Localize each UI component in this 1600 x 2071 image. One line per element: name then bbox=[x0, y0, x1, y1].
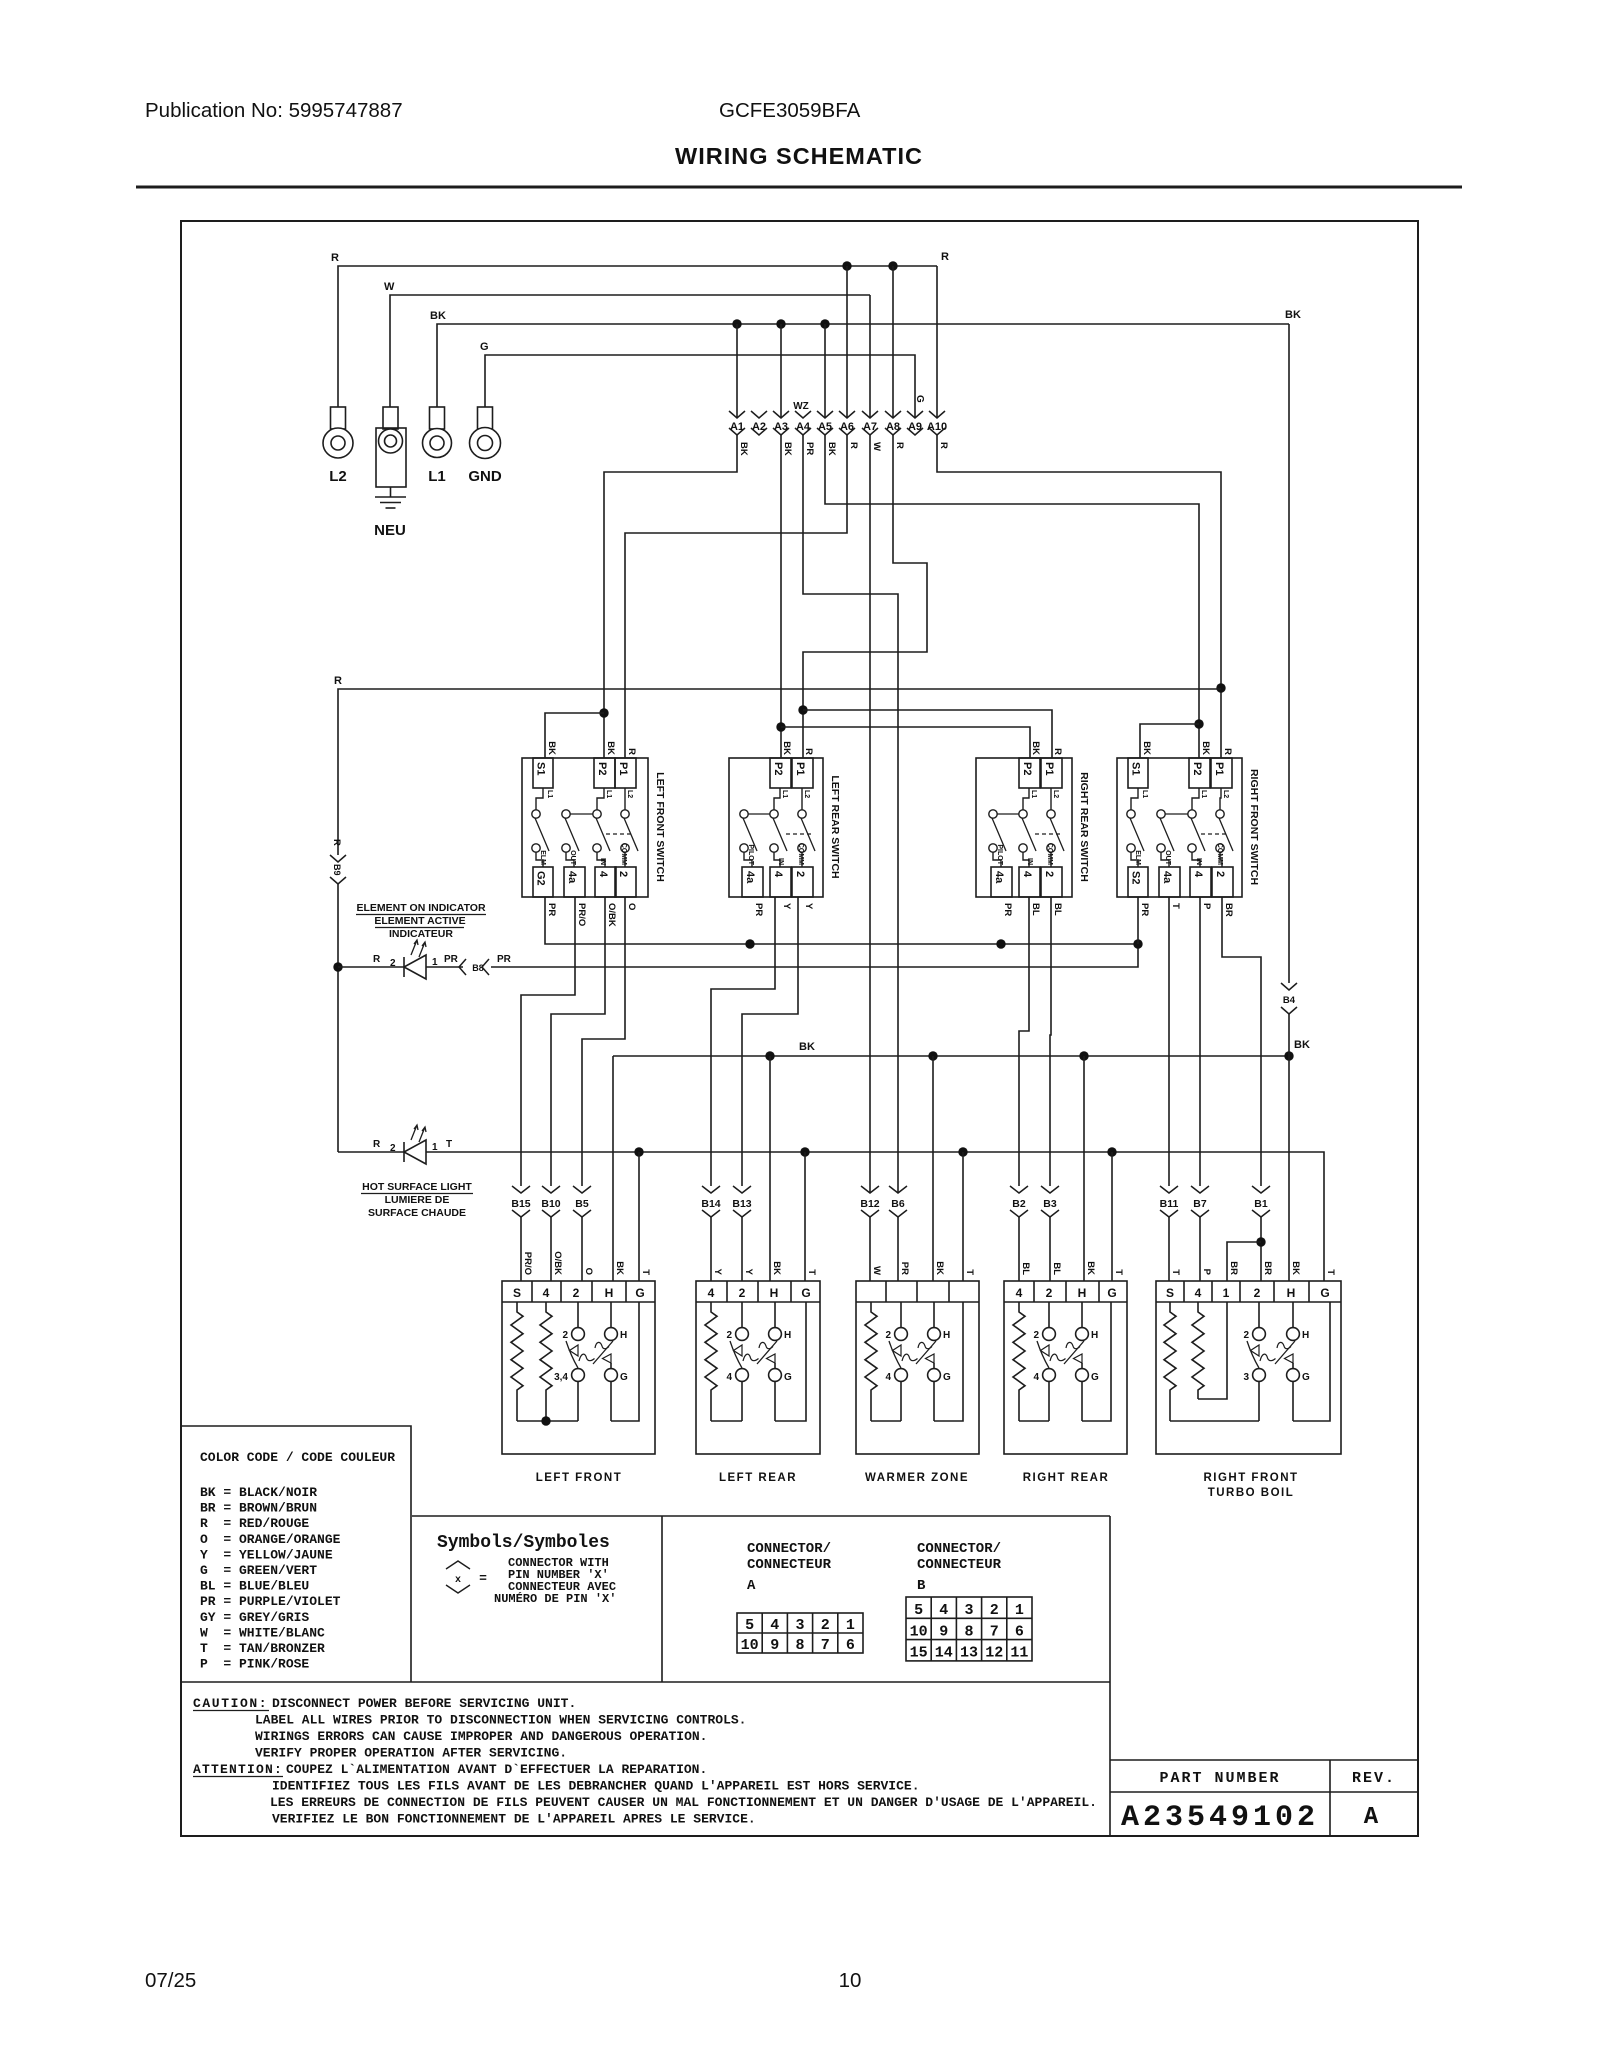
inline connector B7 bbox=[1191, 1186, 1209, 1193]
connector pin A1 bbox=[729, 411, 745, 418]
svg-text:4: 4 bbox=[1033, 1372, 1039, 1383]
wire left front G feed T bbox=[638, 1152, 640, 1281]
svg-text:BL = BLUE/BLEU: BL = BLUE/BLEU bbox=[200, 1579, 309, 1594]
switch LEFT FRONT SWITCH S1 bbox=[522, 758, 648, 897]
limiter switch warmer zone H-G bbox=[933, 1302, 935, 1328]
svg-text:LEFT REAR: LEFT REAR bbox=[719, 1472, 797, 1484]
svg-text:R: R bbox=[941, 251, 949, 263]
svg-text:H: H bbox=[1078, 1286, 1087, 1300]
junction BK bus left rear bbox=[765, 1051, 774, 1060]
terminal NEU with neutral block and ground bbox=[383, 407, 398, 429]
svg-text:P: P bbox=[1201, 1269, 1212, 1276]
svg-text:G: G bbox=[1302, 1372, 1310, 1383]
svg-text:BR: BR bbox=[1223, 903, 1234, 917]
svg-text:T: T bbox=[1170, 903, 1181, 909]
terminal GND bbox=[478, 407, 493, 429]
junction left front element bus bbox=[541, 1416, 550, 1425]
svg-text:13: 13 bbox=[960, 1645, 978, 1662]
svg-text:3: 3 bbox=[964, 1602, 973, 1619]
svg-text:10: 10 bbox=[741, 1637, 759, 1654]
wire A3 BK to left rear switch P2 bbox=[780, 435, 782, 758]
svg-text:RIGHT REAR: RIGHT REAR bbox=[1023, 1472, 1110, 1484]
svg-text:B5: B5 bbox=[575, 1198, 589, 1210]
svg-text:ELEMENT ACTIVE: ELEMENT ACTIVE bbox=[374, 915, 465, 927]
svg-text:BK: BK bbox=[1285, 309, 1301, 321]
wire right front S1 feed bbox=[1140, 724, 1199, 758]
junction element-on indicator bbox=[333, 962, 342, 971]
element LEFT REAR bbox=[696, 1281, 820, 1454]
inline connector B1 bbox=[1252, 1186, 1270, 1193]
svg-text:R: R bbox=[1222, 748, 1233, 755]
svg-text:LEFT FRONT SWITCH: LEFT FRONT SWITCH bbox=[654, 772, 666, 882]
wire warmer zone BK feed bbox=[932, 1056, 934, 1281]
svg-text:WIRING SCHEMATIC: WIRING SCHEMATIC bbox=[675, 143, 923, 169]
svg-text:Y: Y bbox=[781, 903, 792, 910]
svg-text:BK: BK bbox=[1294, 1039, 1310, 1051]
svg-text:07/25: 07/25 bbox=[145, 1969, 196, 1992]
svg-text:R: R bbox=[803, 748, 814, 755]
svg-text:2: 2 bbox=[885, 1330, 891, 1341]
resistor warmer zone bbox=[865, 1302, 877, 1421]
svg-text:4: 4 bbox=[772, 871, 784, 878]
color code box bbox=[181, 1426, 411, 1682]
resistor right front inner bbox=[1192, 1302, 1204, 1399]
wire R supply bus bbox=[338, 266, 937, 407]
svg-text:LEFT FRONT: LEFT FRONT bbox=[536, 1472, 623, 1484]
inline connector B11 bbox=[1160, 1186, 1178, 1193]
limiter switch left front 2-3,4 bbox=[577, 1302, 579, 1328]
svg-text:T: T bbox=[1113, 1269, 1124, 1275]
svg-text:1: 1 bbox=[846, 1617, 855, 1634]
svg-text:B2: B2 bbox=[1012, 1198, 1026, 1210]
svg-text:ATTENTION:: ATTENTION: bbox=[193, 1762, 283, 1777]
wire left rear P1 to right rear P1 bbox=[803, 710, 1052, 758]
svg-text:BK: BK bbox=[781, 741, 792, 755]
junction right front P2/S1 bbox=[1194, 719, 1203, 728]
svg-text:7: 7 bbox=[990, 1623, 999, 1640]
svg-text:H: H bbox=[620, 1330, 627, 1341]
resistor right rear surface bbox=[1013, 1302, 1025, 1421]
svg-text:BK: BK bbox=[1141, 741, 1152, 755]
wire right front 4a element feed bbox=[1168, 897, 1170, 1186]
svg-text:BK = BLACK/NOIR: BK = BLACK/NOIR bbox=[200, 1485, 317, 1500]
svg-text:BK: BK bbox=[605, 741, 616, 755]
wire right front 4 element feed bbox=[1199, 897, 1201, 1186]
svg-text:SURFACE CHAUDE: SURFACE CHAUDE bbox=[368, 1207, 466, 1219]
svg-text:9: 9 bbox=[770, 1637, 779, 1654]
connector pin A2 bbox=[751, 411, 767, 418]
svg-text:12: 12 bbox=[985, 1645, 1003, 1662]
svg-text:P2: P2 bbox=[1191, 762, 1203, 775]
element WARMER ZONE bbox=[856, 1281, 979, 1454]
limiter switch right front H-G bbox=[1292, 1302, 1294, 1328]
svg-text:PR/O: PR/O bbox=[522, 1252, 533, 1275]
svg-text:O/BK: O/BK bbox=[606, 903, 617, 927]
svg-text:RIGHT FRONT SWITCH: RIGHT FRONT SWITCH bbox=[1248, 769, 1260, 885]
wire R distribution bus bbox=[338, 689, 1221, 855]
svg-text:PR: PR bbox=[444, 954, 459, 965]
svg-text:H: H bbox=[605, 1286, 614, 1300]
svg-text:CONNECTOR/: CONNECTOR/ bbox=[747, 1541, 831, 1557]
svg-text:Symbols/Symboles: Symbols/Symboles bbox=[437, 1533, 610, 1553]
inline connector B12 on W feed bbox=[861, 1186, 879, 1193]
svg-text:PR = PURPLE/VIOLET: PR = PURPLE/VIOLET bbox=[200, 1594, 341, 1609]
wire left front S element feed bbox=[521, 897, 575, 1186]
svg-text:BK: BK bbox=[546, 741, 557, 755]
inline connector B5 bbox=[573, 1186, 591, 1193]
junction PR bus right rear bbox=[996, 939, 1005, 948]
svg-text:G: G bbox=[784, 1372, 792, 1383]
junction T bus left front bbox=[634, 1147, 643, 1156]
svg-text:8: 8 bbox=[964, 1623, 973, 1640]
svg-text:PILOT: PILOT bbox=[996, 844, 1003, 865]
junction B1 branch bbox=[1256, 1237, 1265, 1246]
svg-text:COMM: COMM bbox=[1046, 843, 1053, 865]
svg-text:4: 4 bbox=[1021, 871, 1033, 878]
wire warmer zone lamp return bbox=[934, 1302, 963, 1421]
svg-text:LES ERREURS DE CONNECTION DE F: LES ERREURS DE CONNECTION DE FILS PEUVEN… bbox=[270, 1795, 1097, 1810]
svg-text:R = RED/ROUGE: R = RED/ROUGE bbox=[200, 1516, 309, 1531]
svg-text:Publication No: 5995747887: Publication No: 5995747887 bbox=[145, 99, 403, 122]
svg-text:R: R bbox=[1052, 748, 1063, 755]
svg-text:T: T bbox=[1325, 1269, 1336, 1275]
svg-text:A10: A10 bbox=[927, 421, 947, 433]
svg-text:2: 2 bbox=[573, 1286, 580, 1300]
svg-text:10: 10 bbox=[839, 1969, 862, 1992]
wire left rear 2 element feed bbox=[742, 897, 798, 1186]
junction T bus warmer zone bbox=[958, 1147, 967, 1156]
svg-text:LUMIERE DE: LUMIERE DE bbox=[385, 1194, 450, 1206]
svg-text:L1: L1 bbox=[781, 790, 788, 798]
svg-text:R: R bbox=[334, 675, 342, 687]
svg-text:L1: L1 bbox=[605, 790, 612, 798]
svg-text:IN: IN bbox=[777, 858, 784, 865]
svg-text:NEU: NEU bbox=[374, 522, 406, 539]
svg-text:4a: 4a bbox=[993, 871, 1005, 884]
switch LEFT REAR SWITCH S2 bbox=[729, 758, 823, 897]
wire left front 2 element feed bbox=[582, 897, 625, 1186]
svg-text:R: R bbox=[373, 954, 381, 965]
wire branch to element pin 1 bbox=[1227, 1242, 1261, 1281]
connector pin A6 bbox=[839, 411, 855, 418]
resistor right front outer bbox=[1164, 1302, 1176, 1421]
svg-text:G: G bbox=[480, 341, 489, 353]
svg-text:Y: Y bbox=[803, 903, 814, 910]
LED hot surface light bbox=[338, 1151, 404, 1153]
svg-text:3,4: 3,4 bbox=[554, 1372, 568, 1383]
svg-text:L2: L2 bbox=[626, 790, 633, 798]
svg-text:P: P bbox=[1201, 903, 1212, 910]
svg-text:4: 4 bbox=[1195, 1286, 1202, 1300]
wire A6 R to left front switch P1 bbox=[625, 435, 847, 758]
svg-text:BR = BROWN/BRUN: BR = BROWN/BRUN bbox=[200, 1501, 317, 1516]
svg-text:R: R bbox=[894, 442, 905, 449]
ground symbol bbox=[390, 487, 392, 497]
svg-text:PR: PR bbox=[1002, 903, 1013, 916]
svg-text:B10: B10 bbox=[541, 1198, 560, 1210]
connector pin A5 bbox=[817, 411, 833, 418]
svg-text:W: W bbox=[871, 1266, 882, 1275]
svg-text:G = GREEN/VERT: G = GREEN/VERT bbox=[200, 1563, 317, 1578]
svg-text:WARMER ZONE: WARMER ZONE bbox=[865, 1472, 969, 1484]
junction T bus left rear bbox=[800, 1147, 809, 1156]
connector pin A8 bbox=[885, 411, 901, 418]
svg-text:CAUTION:: CAUTION: bbox=[193, 1696, 268, 1711]
svg-text:11: 11 bbox=[1010, 1645, 1028, 1662]
svg-text:PR: PR bbox=[804, 442, 815, 455]
svg-text:4: 4 bbox=[770, 1617, 779, 1634]
svg-text:L1: L1 bbox=[428, 468, 446, 485]
switch RIGHT REAR SWITCH S3 bbox=[976, 758, 1072, 897]
svg-text:3: 3 bbox=[1243, 1372, 1249, 1383]
limiter switch left rear H-G bbox=[774, 1302, 776, 1328]
svg-text:BK: BK bbox=[1290, 1261, 1301, 1275]
svg-text:4: 4 bbox=[597, 871, 609, 878]
svg-text:LEFT REAR SWITCH: LEFT REAR SWITCH bbox=[829, 775, 841, 878]
svg-text:15: 15 bbox=[910, 1645, 928, 1662]
connector pin A3 bbox=[773, 411, 789, 418]
wire G supply bus bbox=[485, 355, 915, 418]
svg-text:1: 1 bbox=[1015, 1602, 1024, 1619]
wire left rear P2 to right rear P2 bbox=[781, 727, 1030, 758]
svg-text:B: B bbox=[917, 1578, 926, 1594]
svg-text:4a: 4a bbox=[566, 871, 578, 884]
svg-text:9: 9 bbox=[939, 1623, 948, 1640]
svg-text:PART NUMBER: PART NUMBER bbox=[1159, 1770, 1280, 1787]
svg-text:INDICATEUR: INDICATEUR bbox=[389, 928, 453, 940]
svg-text:H: H bbox=[784, 1330, 791, 1341]
svg-text:2: 2 bbox=[617, 871, 629, 877]
wire right rear element bus bbox=[1019, 1420, 1049, 1422]
wire BK element bus bbox=[613, 1055, 1289, 1057]
svg-text:B7: B7 bbox=[1193, 1198, 1207, 1210]
limiter switch right rear H-G bbox=[1081, 1302, 1083, 1328]
junction left front P2/S1 bbox=[599, 708, 608, 717]
svg-text:G: G bbox=[1091, 1372, 1099, 1383]
svg-text:R: R bbox=[373, 1139, 381, 1150]
svg-text:B14: B14 bbox=[701, 1198, 720, 1210]
connector pin A9 bbox=[907, 411, 923, 418]
svg-text:A: A bbox=[747, 1578, 756, 1594]
svg-text:S1: S1 bbox=[1130, 762, 1142, 775]
junction on BK bus at A3 bbox=[776, 319, 785, 328]
wire left front lamp return bbox=[611, 1302, 639, 1421]
svg-text:PR: PR bbox=[1139, 903, 1150, 916]
svg-text:2: 2 bbox=[1033, 1330, 1039, 1341]
svg-text:7: 7 bbox=[821, 1637, 830, 1654]
svg-text:P1: P1 bbox=[1213, 762, 1225, 775]
svg-text:P1: P1 bbox=[794, 762, 806, 775]
wire right front element bus bbox=[1170, 1420, 1259, 1422]
inline connector B15 bbox=[512, 1186, 530, 1193]
svg-text:4: 4 bbox=[726, 1372, 732, 1383]
connector pin symbol legend bbox=[446, 1561, 470, 1569]
wire A8 R to left rear switch P1 bbox=[803, 435, 927, 758]
svg-text:RIGHT REAR SWITCH: RIGHT REAR SWITCH bbox=[1078, 772, 1090, 882]
svg-text:T: T bbox=[964, 1269, 975, 1275]
svg-text:G2: G2 bbox=[535, 871, 547, 886]
svg-text:O: O bbox=[626, 903, 637, 910]
limiter switch left front H-G bbox=[610, 1302, 612, 1328]
inline connector B6 on PR feed bbox=[889, 1186, 907, 1193]
svg-text:BK: BK bbox=[614, 1261, 625, 1275]
svg-text:DISCONNECT POWER BEFORE SERVIC: DISCONNECT POWER BEFORE SERVICING UNIT. bbox=[272, 1696, 576, 1711]
svg-text:A: A bbox=[1364, 1804, 1379, 1831]
svg-text:T: T bbox=[446, 1139, 452, 1150]
junction BK bus right rear bbox=[1079, 1051, 1088, 1060]
svg-text:G: G bbox=[620, 1372, 628, 1383]
svg-text:GND: GND bbox=[468, 468, 502, 485]
svg-text:H: H bbox=[1091, 1330, 1098, 1341]
svg-text:2: 2 bbox=[990, 1602, 999, 1619]
terminal L2 bbox=[331, 407, 346, 429]
wire right front lamp return bbox=[1293, 1302, 1330, 1421]
svg-text:G: G bbox=[1107, 1286, 1116, 1300]
junction on R bus at A6 bbox=[842, 261, 851, 270]
wire right rear lamp return bbox=[1082, 1302, 1111, 1421]
svg-text:R: R bbox=[626, 748, 637, 755]
junction on BK bus at A1 bbox=[732, 319, 741, 328]
svg-text:P = PINK/ROSE: P = PINK/ROSE bbox=[200, 1657, 309, 1672]
svg-text:COMM: COMM bbox=[620, 843, 627, 865]
svg-text:2: 2 bbox=[726, 1330, 732, 1341]
svg-text:BL: BL bbox=[1051, 1262, 1062, 1275]
svg-text:VERIFY PROPER OPERATION AFTER: VERIFY PROPER OPERATION AFTER SERVICING. bbox=[255, 1746, 567, 1761]
svg-text:P1: P1 bbox=[617, 762, 629, 775]
wire PR from B8 to PR net bbox=[491, 944, 1138, 967]
svg-text:WIRINGS ERRORS CAN CAUSE IMPRO: WIRINGS ERRORS CAN CAUSE IMPROPER AND DA… bbox=[255, 1729, 707, 1744]
resistor left front surface 4 bbox=[540, 1302, 552, 1421]
svg-text:HOT SURFACE LIGHT: HOT SURFACE LIGHT bbox=[362, 1181, 472, 1193]
svg-text:RIGHT FRONT: RIGHT FRONT bbox=[1203, 1472, 1298, 1484]
wire BK supply bus bbox=[437, 324, 1289, 407]
svg-text:2: 2 bbox=[390, 1143, 396, 1154]
svg-text:PILOT: PILOT bbox=[747, 844, 754, 865]
svg-text:G: G bbox=[943, 1372, 951, 1383]
svg-text:G: G bbox=[801, 1286, 810, 1300]
svg-text:T = TAN/BRONZER: T = TAN/BRONZER bbox=[200, 1641, 325, 1656]
junction right front P1 on R bus bbox=[1216, 683, 1225, 692]
wire W supply bus bbox=[390, 295, 870, 407]
svg-text:4a: 4a bbox=[744, 871, 756, 884]
svg-text:6: 6 bbox=[846, 1637, 855, 1654]
junction left rear P2 bbox=[776, 722, 785, 731]
wire A1 BK to left front switch P2 bbox=[604, 435, 737, 758]
svg-text:IN: IN bbox=[1195, 858, 1202, 865]
svg-text:B13: B13 bbox=[732, 1198, 751, 1210]
svg-text:G: G bbox=[914, 395, 925, 403]
wire left front 4 element feed bbox=[551, 897, 605, 1186]
svg-text:BL: BL bbox=[1030, 903, 1041, 916]
svg-text:G: G bbox=[635, 1286, 644, 1300]
resistor left rear surface bbox=[705, 1302, 717, 1421]
svg-text:O = ORANGE/ORANGE: O = ORANGE/ORANGE bbox=[200, 1532, 341, 1547]
svg-text:CONNECTEUR: CONNECTEUR bbox=[747, 1557, 832, 1573]
svg-text:W: W bbox=[384, 281, 395, 293]
wire PR pilot bus bbox=[545, 897, 1138, 944]
inline connector B3 bbox=[1041, 1186, 1059, 1193]
svg-text:x: x bbox=[455, 1575, 461, 1586]
svg-text:OUT: OUT bbox=[569, 850, 576, 866]
svg-text:T: T bbox=[806, 1269, 817, 1275]
svg-text:2: 2 bbox=[1254, 1286, 1261, 1300]
limiter switch warmer zone 2-4 bbox=[900, 1302, 902, 1328]
wire left rear G feed T bbox=[804, 1152, 806, 1281]
svg-text:PR: PR bbox=[497, 954, 512, 965]
svg-text:B12: B12 bbox=[860, 1198, 879, 1210]
wire left rear element bus bbox=[711, 1420, 742, 1422]
svg-text:B15: B15 bbox=[511, 1198, 530, 1210]
inline connector B14 bbox=[702, 1186, 720, 1193]
svg-text:P1: P1 bbox=[1043, 762, 1055, 775]
resistor left front surface S bbox=[511, 1302, 523, 1421]
svg-text:5: 5 bbox=[745, 1617, 754, 1634]
svg-text:4: 4 bbox=[708, 1286, 715, 1300]
element RIGHT FRONT TURBO BOIL bbox=[1156, 1281, 1341, 1454]
svg-text:L2: L2 bbox=[1052, 790, 1059, 798]
svg-text:5: 5 bbox=[914, 1602, 923, 1619]
svg-text:L1: L1 bbox=[1141, 790, 1148, 798]
svg-text:PR: PR bbox=[753, 903, 764, 916]
wire warmer zone T feed bbox=[962, 1152, 964, 1281]
svg-text:B3: B3 bbox=[1043, 1198, 1057, 1210]
svg-text:2: 2 bbox=[1046, 1286, 1053, 1300]
svg-text:R: R bbox=[938, 442, 949, 449]
svg-text:14: 14 bbox=[935, 1645, 953, 1662]
terminal L1 bbox=[430, 407, 445, 429]
wire left front S1 feed bbox=[545, 713, 604, 758]
junction BK bus warmer zone bbox=[928, 1051, 937, 1060]
svg-text:=: = bbox=[479, 1571, 487, 1586]
svg-text:BK: BK bbox=[738, 442, 749, 456]
svg-text:2: 2 bbox=[1214, 871, 1226, 877]
svg-text:P2: P2 bbox=[1021, 762, 1033, 775]
svg-text:T: T bbox=[1170, 1269, 1181, 1275]
svg-text:S1: S1 bbox=[535, 762, 547, 775]
svg-text:2: 2 bbox=[1243, 1330, 1249, 1341]
svg-text:Y: Y bbox=[743, 1269, 754, 1276]
wire left rear 4 element feed bbox=[711, 897, 775, 1186]
svg-text:BK: BK bbox=[430, 310, 446, 322]
svg-text:BL: BL bbox=[1052, 903, 1063, 916]
svg-text:4a: 4a bbox=[1161, 871, 1173, 884]
svg-text:REV.: REV. bbox=[1352, 1770, 1396, 1787]
svg-text:2: 2 bbox=[794, 871, 806, 877]
limiter switch left rear 2-4 bbox=[741, 1302, 743, 1328]
svg-text:B9: B9 bbox=[332, 864, 342, 876]
svg-text:PR: PR bbox=[899, 1262, 910, 1275]
svg-text:4: 4 bbox=[939, 1602, 948, 1619]
svg-text:2: 2 bbox=[390, 958, 396, 969]
svg-text:ELEMENT ON INDICATOR: ELEMENT ON INDICATOR bbox=[356, 902, 486, 914]
svg-text:OUT: OUT bbox=[1164, 850, 1171, 866]
svg-text:3: 3 bbox=[795, 1617, 804, 1634]
wire left front H feed BK bbox=[612, 1056, 614, 1281]
svg-text:IN: IN bbox=[599, 858, 606, 865]
svg-text:IN: IN bbox=[1026, 858, 1033, 865]
svg-text:COMM: COMM bbox=[797, 843, 804, 865]
junction PR bus right front bbox=[1133, 939, 1142, 948]
inline connector B8 bbox=[426, 966, 463, 968]
svg-text:PR/O: PR/O bbox=[576, 903, 587, 926]
svg-text:L1: L1 bbox=[1200, 790, 1207, 798]
svg-text:B6: B6 bbox=[891, 1198, 905, 1210]
svg-text:T: T bbox=[640, 1269, 651, 1275]
junction BK bus right front bbox=[1284, 1051, 1293, 1060]
svg-text:LABEL ALL WIRES PRIOR TO DISCO: LABEL ALL WIRES PRIOR TO DISCONNECTION W… bbox=[255, 1713, 746, 1728]
svg-text:4: 4 bbox=[543, 1286, 550, 1300]
wire bus drops to connector A bbox=[736, 324, 738, 418]
